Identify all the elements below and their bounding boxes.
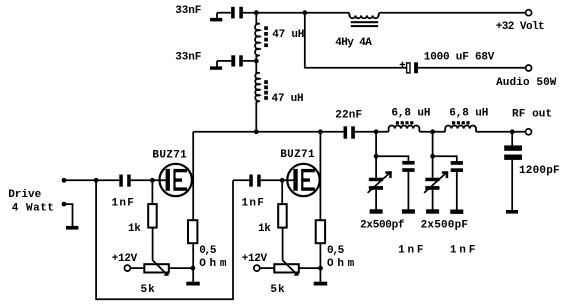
node A (C1/L1 junction) [254, 10, 259, 15]
terminal Audio 50W [526, 65, 532, 71]
wire node M to C10 [511, 132, 513, 146]
node E (Q1 gate) [150, 178, 155, 183]
wire R1 to pot wiper [152, 228, 154, 261]
terminal +32 Volt [526, 10, 532, 16]
wire Q1 drain [192, 132, 194, 220]
svg-text:BUZ71: BUZ71 [280, 149, 315, 161]
inductor L1 47uH [255, 13, 268, 61]
capacitor C2 33nF [231, 55, 243, 66]
node M (RF out / 1200pF) [510, 129, 515, 134]
wire VC1 to ground [375, 190, 377, 210]
svg-text:4Hy 4A: 4Hy 4A [335, 37, 372, 49]
wire branch2 link to C9 [433, 156, 457, 161]
terminal Drive input [62, 178, 67, 183]
svg-text:2x500pF: 2x500pF [421, 219, 469, 231]
inductor L2 47uH [255, 61, 268, 132]
ground (C8) [402, 209, 415, 213]
capacitor C10 1200pF [504, 145, 522, 160]
capacitor C1 33nF [231, 7, 243, 19]
wire C5 to Q2 gate [261, 179, 294, 181]
svg-text:33nF: 33nF [175, 52, 201, 64]
wire input line [64, 179, 119, 181]
node N (branch1 split) [374, 154, 379, 159]
transistor Q1 BUZ71 [160, 164, 192, 196]
inductor L3 4Hy 4A choke [349, 13, 378, 27]
capacitor VC2 2x500pF variable [424, 171, 448, 193]
wire P2 to Q2 source [299, 267, 321, 269]
svg-text:+12V: +12V [112, 253, 138, 265]
svg-text:1nF: 1nF [450, 245, 478, 257]
svg-text:1nF: 1nF [242, 198, 266, 210]
wire C6 to L4 [355, 131, 389, 133]
wire +12V to P2 [260, 267, 274, 269]
wire branch1 link to C8 [376, 156, 408, 161]
terminal +12V (stage 1) [124, 265, 130, 271]
terminal +12V (stage 2) [254, 265, 260, 271]
capacitor C8 1nF [402, 161, 414, 172]
wire C4 to Q1 gate [131, 179, 166, 181]
ground (C10) [506, 210, 518, 214]
svg-text:+12V: +12V [242, 253, 268, 265]
svg-text:6,8 uH: 6,8 uH [391, 108, 430, 120]
ground (C2 input) [210, 61, 222, 70]
node K (filter branch 1) [374, 129, 379, 134]
svg-text:1000 uF 68V: 1000 uF 68V [424, 52, 495, 64]
node G (Q2 gate) [280, 178, 285, 183]
capacitor C5 1nF [249, 175, 260, 187]
svg-text:0,5: 0,5 [327, 245, 345, 257]
ground (Q2 source) [314, 282, 328, 286]
svg-text:1k: 1k [258, 223, 271, 235]
wire C2 to node C [243, 60, 256, 62]
node D (input/feed junction) [94, 178, 99, 183]
wire top rail right [379, 12, 525, 14]
wire P1 to Q1 source [169, 267, 193, 269]
wire feed loop to stage 2 [96, 180, 233, 299]
svg-text:1nF: 1nF [398, 245, 426, 257]
svg-text:1nF: 1nF [112, 198, 136, 210]
ground (C1 input) [210, 13, 222, 22]
inductor L5 6,8uH [445, 121, 476, 132]
ground (VC1) [370, 209, 383, 213]
wire R3 to pot wiper [282, 228, 284, 261]
terminal RF out [526, 129, 532, 135]
ground (VC2) [426, 209, 439, 213]
wire C3 to audio terminal [418, 67, 525, 69]
wire R2 to ground [192, 243, 194, 282]
node B (top rail to audio drop) [302, 10, 307, 15]
node H (Q2 source/pot) [318, 266, 323, 271]
capacitor C6 22nF [344, 126, 355, 138]
svg-text:+32 Volt: +32 Volt [496, 21, 544, 33]
wire C9 to ground [456, 172, 458, 210]
wire +12V to P1 [131, 267, 145, 269]
node L (filter branch 2) [430, 129, 435, 134]
svg-text:4 Watt: 4 Watt [12, 202, 55, 214]
wire Q2 drain [319, 132, 321, 220]
capacitor C3 1000uF electrolytic [400, 62, 418, 74]
wire drain rail [193, 131, 343, 133]
resistor R2 0,5 Ohm [188, 220, 197, 243]
svg-text:Audio 50W: Audio 50W [496, 77, 557, 89]
svg-text:Drive: Drive [8, 189, 41, 201]
wire branch2 vertical [432, 132, 434, 178]
wire feed to C5 [233, 179, 249, 181]
ground (Q1 source) [186, 282, 200, 286]
node C (L1/L2 junction) [254, 59, 259, 64]
svg-text:1k: 1k [128, 223, 141, 235]
node F (Q1 source/pot) [191, 266, 196, 271]
resistor R1 1k [148, 180, 157, 227]
svg-text:47 uH: 47 uH [272, 93, 304, 105]
wire ground to C2 [217, 60, 231, 62]
wire top rail left [243, 12, 349, 14]
capacitor C9 1nF [451, 161, 463, 172]
wire L4 to L5 [419, 131, 445, 133]
wire branch1 vertical [375, 132, 377, 178]
ground (drive return) [64, 204, 78, 229]
svg-text:6,8 uH: 6,8 uH [449, 108, 488, 120]
transistor Q2 BUZ71 [287, 164, 319, 196]
capacitor C4 1nF [119, 175, 130, 187]
wire C8 to ground [407, 172, 409, 210]
ground (C9) [450, 210, 463, 214]
wire VC2 to ground [432, 190, 434, 210]
resistor R4 0,5 Ohm [316, 220, 325, 243]
svg-text:5k: 5k [270, 284, 285, 296]
wire L5 to RF out [476, 131, 526, 133]
wire audio drop [305, 13, 406, 68]
svg-text:Ohm: Ohm [327, 258, 358, 270]
inductor L4 6,8uH [389, 121, 420, 132]
svg-text:2x500pf: 2x500pf [360, 219, 405, 231]
wire C10 to ground [511, 160, 513, 210]
svg-text:22nF: 22nF [335, 109, 362, 121]
svg-text:33nF: 33nF [175, 5, 201, 17]
svg-text:1200pF: 1200pF [519, 165, 560, 177]
svg-text:BUZ71: BUZ71 [152, 150, 187, 162]
wire R4 to ground [319, 243, 321, 282]
node O (branch2 split) [430, 154, 435, 159]
terminal Drive return [62, 202, 67, 207]
svg-text:5k: 5k [141, 284, 156, 296]
resistor R3 1k [278, 180, 287, 227]
node J (Q2 drain on rail) [318, 129, 323, 134]
potentiometer P2 5k [274, 260, 299, 275]
svg-text:0,5: 0,5 [199, 245, 217, 257]
svg-text:47 uH: 47 uH [272, 29, 304, 41]
svg-text:Ohm: Ohm [199, 258, 230, 270]
wire ground to C1 [217, 12, 231, 14]
potentiometer P1 5k [144, 260, 169, 275]
node I (L2 bottom on rail) [254, 129, 259, 134]
capacitor VC1 2x500pf variable [368, 171, 392, 193]
svg-text:RF out: RF out [512, 109, 552, 121]
